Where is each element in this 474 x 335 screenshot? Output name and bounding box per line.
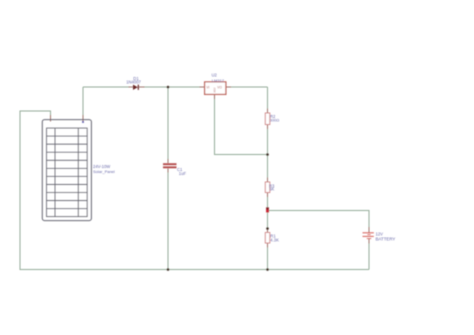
svg-text:1N4007: 1N4007 <box>126 80 141 85</box>
svg-text:VO: VO <box>217 86 222 90</box>
svg-text:ADJ: ADJ <box>213 87 217 93</box>
svg-text:VI: VI <box>206 86 209 90</box>
svg-text:5K: 5K <box>269 187 274 192</box>
svg-text:4.3K: 4.3K <box>270 238 279 243</box>
svg-text:BATTERY: BATTERY <box>376 236 396 241</box>
svg-text:LM317: LM317 <box>212 78 225 83</box>
svg-text:Solar_Panel: Solar_Panel <box>93 169 115 174</box>
svg-text:1uF: 1uF <box>179 171 187 176</box>
svg-text:300Ω: 300Ω <box>270 117 280 122</box>
